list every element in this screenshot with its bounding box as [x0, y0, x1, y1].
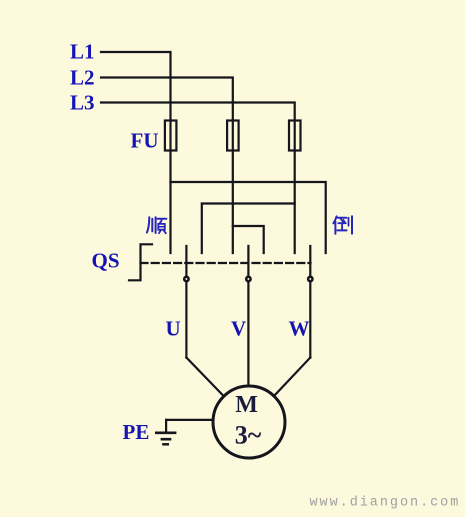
label 顺 (forward) hand-drawn glyph	[147, 217, 167, 233]
wire phase L3 from FU3 down to QS pole3 left contact	[294, 151, 296, 254]
wire QS pole1 blade down to bend (output U)	[185, 246, 187, 358]
motor M circle	[213, 386, 285, 458]
svg-text:L3: L3	[70, 91, 95, 115]
wire L2 feed to fuse FU2	[101, 78, 233, 121]
wire bus L2 to QS pole2 right contact	[233, 226, 264, 253]
svg-text:V: V	[231, 317, 246, 341]
wire fuse FU2 body through-line	[232, 121, 234, 151]
wire fuse FU3 body through-line	[294, 121, 296, 151]
fuse FU3	[289, 121, 301, 151]
svg-text:www.diangon.com: www.diangon.com	[310, 496, 461, 511]
svg-text:W: W	[289, 317, 310, 341]
svg-text:3~: 3~	[235, 421, 262, 450]
QS pole2 pivot contact circle	[246, 277, 250, 281]
label 倒 (reverse) hand-drawn glyph	[333, 216, 352, 234]
wire W diagonal into motor	[274, 358, 311, 397]
svg-text:U: U	[166, 317, 181, 341]
svg-text:M: M	[235, 392, 258, 418]
wire crossover bus L3 to QS pole1 right contact	[202, 204, 295, 254]
ground symbol stem	[165, 420, 167, 433]
fuse FU2	[227, 121, 239, 151]
wire U diagonal into motor	[186, 358, 223, 397]
ground symbol bars	[155, 433, 176, 445]
svg-text:PE: PE	[123, 420, 150, 444]
wire PE to motor frame	[166, 419, 214, 421]
svg-text:L2: L2	[70, 66, 95, 90]
wire phase L2 from FU2 down to QS pole2 left contact	[232, 151, 234, 254]
QS pole1 pivot contact circle	[184, 277, 188, 281]
svg-text:FU: FU	[131, 129, 159, 153]
wire crossover bus L1 to QS pole3 right contact	[171, 182, 326, 253]
wire fuse FU1 body through-line	[169, 121, 171, 151]
svg-text:QS: QS	[92, 249, 120, 273]
fuse FU1	[165, 121, 177, 151]
switch QS handle bracket	[129, 244, 152, 280]
QS pole3 pivot contact circle	[308, 277, 312, 281]
wire L1 feed to fuse FU1	[101, 52, 171, 121]
wire QS pole3 blade down to bend (output W)	[309, 246, 311, 358]
wire QS pole2 blade down (output V)	[247, 246, 249, 387]
switch QS linkage dashed line	[141, 262, 311, 264]
wire phase L1 from FU1 down to QS pole1 left contact	[169, 151, 171, 254]
wire L3 feed to fuse FU3	[101, 103, 295, 121]
svg-text:L1: L1	[70, 40, 95, 64]
